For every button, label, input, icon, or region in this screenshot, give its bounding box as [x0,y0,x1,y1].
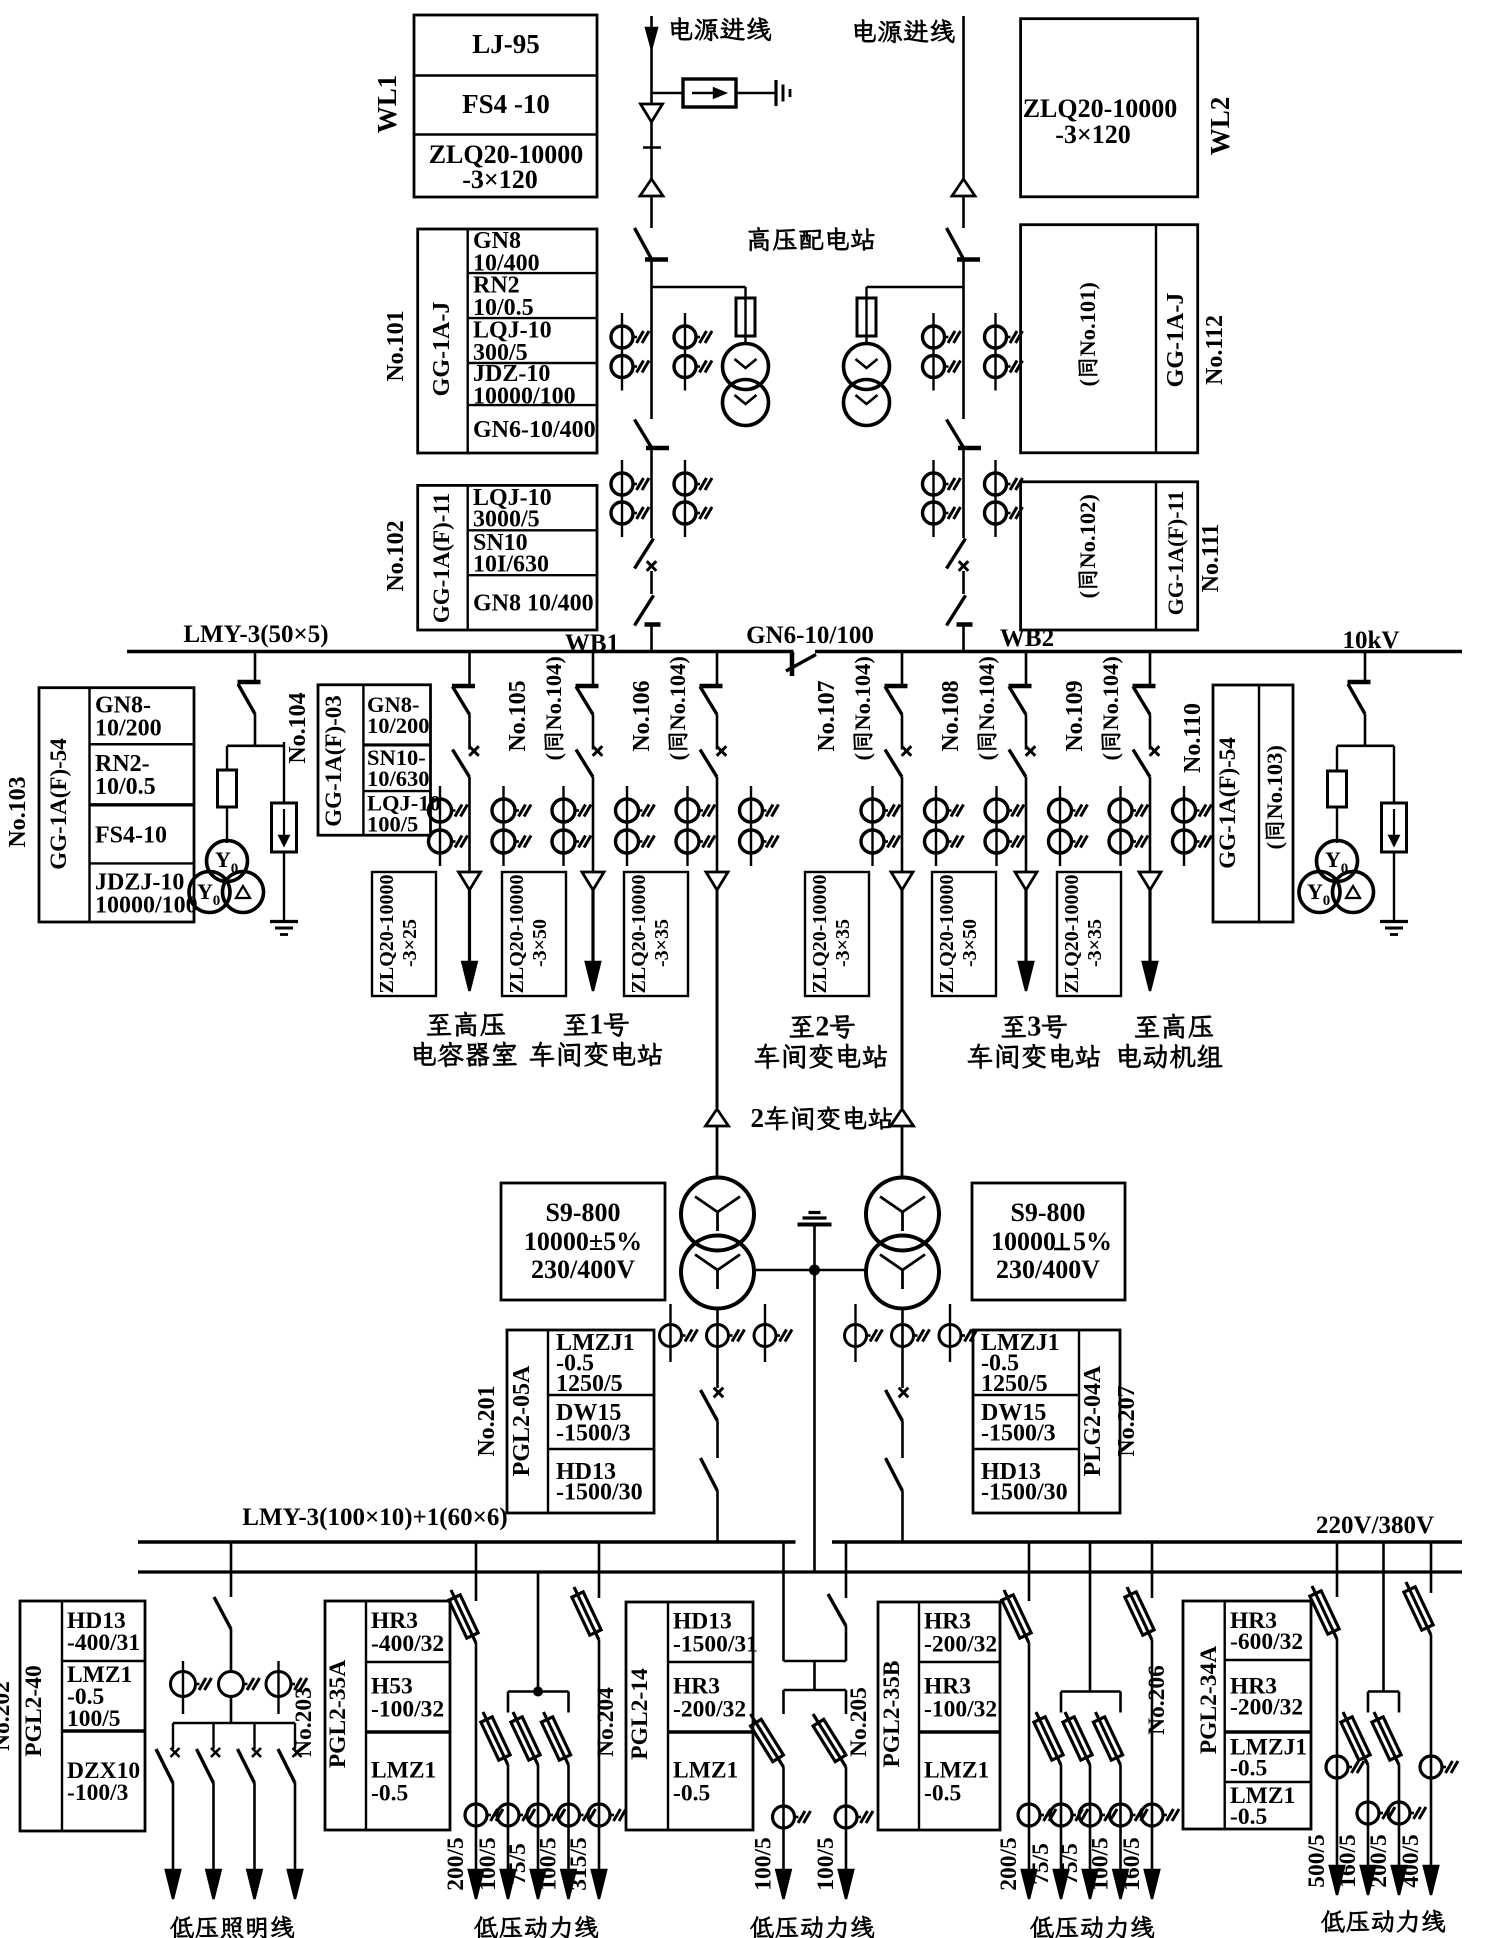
label (同No.104) rotated for No.109 [1098,656,1123,760]
svg-text:WB2: WB2 [1000,625,1054,652]
cable head down-triangle on WL1 [641,104,663,122]
svg-text:PGL2-35B: PGL2-35B [879,1660,905,1767]
LV CT + wire + arrow x=1152 [1151,1640,1154,1883]
CT pair right lower stub A [932,460,934,537]
svg-text:-3×25: -3×25 [399,919,421,967]
svg-text:230/400V: 230/400V [531,1255,635,1284]
No.206 A CT wire arrow [1336,1639,1339,1879]
wire to LV bus x=717.5 [716,1491,719,1542]
svg-text:-0.5: -0.5 [924,1780,961,1806]
incoming line 1 source arrow [646,28,657,48]
spec box No.110 [1213,685,1293,922]
label 电源进线 left [671,17,692,40]
svg-text:75/5: 75/5 [1028,1843,1054,1885]
svg-text:No.104): No.104) [1098,656,1123,730]
cable box ZLQ20 No.106 [624,872,688,996]
svg-text:ZLQ20-10000: ZLQ20-10000 [506,875,528,994]
svg-text:PGL2-34A: PGL2-34A [1196,1646,1222,1754]
svg-text:No.206: No.206 [1144,1665,1170,1735]
svg-text:No.204: No.204 [593,1687,619,1757]
svg-text:-400/32: -400/32 [371,1631,444,1657]
branch wire to PT fuse right [867,286,964,289]
output No.204 x=846 [813,1714,846,1767]
svg-text:0: 0 [231,861,239,877]
panel No.202 distribution bar [173,1722,295,1725]
wire right branch to arrester No.110 [1393,746,1395,803]
LV fuse switch at x=476 [451,1590,476,1643]
WL1 wire below triangle [650,122,653,182]
wire to breaker right [962,448,965,538]
feeder No.109 CT pair right [1183,786,1185,866]
LV CT trio at transformer x=902.5 [854,1304,856,1362]
svg-text:-100/32: -100/32 [924,1696,997,1722]
PT JDZJ-10 No.103 (3 circles Y0 Y0 D) [207,841,248,882]
svg-text:Y: Y [1325,847,1341,872]
svg-text:(: ( [1262,842,1287,850]
label 低压动力线 No.204 [750,1916,773,1938]
svg-text:-3×35: -3×35 [651,919,673,967]
svg-text:1250/5: 1250/5 [556,1371,623,1397]
svg-text:(: ( [1075,379,1100,387]
distribution bar fed from neutral x=1090 [1061,1690,1121,1693]
panel No.202 knife switch HD13 [214,1597,231,1629]
svg-text:10kV: 10kV [1343,627,1400,654]
svg-text:3000/5: 3000/5 [473,507,540,533]
CT pair 3000/5 left stub A [621,460,623,537]
bus tie bottom bar [784,1660,847,1663]
spec box No.202 PGL2-40 [20,1601,145,1831]
distribution bar fed from neutral x=1383.5 [1368,1690,1399,1693]
feeder No.107 wire from bus [901,652,904,687]
svg-text:No.104: No.104 [285,692,311,763]
svg-text:-0.5: -0.5 [1230,1755,1267,1781]
CT pair right lower stub B [994,460,996,537]
svg-text:-1500/3: -1500/3 [981,1420,1056,1446]
disconnector GN8 right (blade+bar) [947,596,966,626]
feeder A No.205 wire from bus [1028,1542,1031,1601]
branch wire to PT fuse left [652,286,746,289]
cable box ZLQ20 No.107 [805,872,869,996]
spec box No.203 PGL2-35A [325,1601,450,1830]
svg-text:WL1: WL1 [372,75,402,134]
destination label 至高压/电容器室 [427,1014,451,1035]
svg-text:ZLQ20-10000: ZLQ20-10000 [1061,875,1083,994]
feeder No.105 CT pair left [562,786,564,866]
lighting circuit wire+arrow x=254.5 [253,1783,256,1883]
PT No.110 (3 circles Y0 Y0 D) [1317,841,1358,882]
feeder No.109 cable wire+arrow [1148,890,1151,975]
wire transformer LV down x=902.5 [901,1309,904,1389]
trio output No.203 x=538 [513,1712,538,1765]
svg-text:No.203: No.203 [291,1687,317,1757]
feeder No.108 CT pair left [995,786,997,866]
svg-text:200/5: 200/5 [443,1837,469,1891]
svg-text:200/5: 200/5 [1366,1834,1392,1888]
wire No.103 split [254,714,257,746]
spec box WL1 [414,15,597,197]
wire WL2 QS2 to branch [962,259,965,419]
wire bus to No.103 branch [254,652,257,682]
svg-text:GG-1A(F)-11: GG-1A(F)-11 [1163,491,1188,616]
svg-text:(: ( [974,753,999,761]
destination label 至2号/车间变电站 [790,1016,814,1037]
trio output No.205 x=1120.5 [1096,1712,1121,1765]
svg-text:160/5: 160/5 [1335,1834,1361,1888]
CT pair right stub A [932,313,934,391]
svg-text:No.201: No.201 [474,1385,500,1456]
feeder No.107 CT pair left [871,786,873,866]
svg-text:Y: Y [197,879,213,904]
spec box WL2 [1021,19,1198,197]
wire to LV bus x=902.5 [901,1491,904,1542]
disconnector QS2 on WL2 (blade+bar) [947,228,964,259]
feeder No.108 circuit breaker (x+blade) [1026,746,1036,756]
LV knife switch HD13 x=902.5 [886,1458,903,1491]
svg-text:-3×120: -3×120 [1055,120,1130,149]
cable head up-triangle on WL1 [640,179,663,196]
bus tie left leg wire [782,1542,785,1661]
cable box ZLQ20 No.109 [1057,872,1121,996]
svg-text:WL2: WL2 [1205,97,1235,156]
feeder No.108 wire from bus [1025,652,1028,687]
feeder No.105 wire from bus [592,652,595,687]
svg-text:No.202: No.202 [0,1681,15,1751]
svg-text:No.111: No.111 [1198,524,1224,593]
label (同No.103) rotated [1262,745,1287,849]
spec box No.104 GG-1A(F)-03 [318,685,431,835]
LV breaker DW15 (x+blade) x=902.5 [899,1388,909,1398]
svg-text:500/5: 500/5 [1304,1834,1330,1888]
bus tie right leg lower wire [845,1626,848,1661]
svg-text:-0.5: -0.5 [1230,1804,1267,1830]
svg-text:S9-800: S9-800 [1010,1198,1085,1227]
feeder No.108 cable wire+arrow [1024,890,1027,975]
wire bus to No.110 branch [1364,652,1367,682]
svg-text:ZLQ20-10000: ZLQ20-10000 [1023,94,1178,123]
svg-text:PLG2-04A: PLG2-04A [1080,1365,1106,1476]
cable head triangle No.105 [582,872,604,890]
feeder No.109 disconnector (bar+blade) [1133,684,1156,689]
svg-text:No.108: No.108 [938,680,964,751]
svg-text:-1500/30: -1500/30 [981,1479,1068,1505]
svg-text:No.109: No.109 [1062,680,1088,751]
label (同No.104) rotated for No.107 [850,656,875,760]
svg-text:GN6-10/400: GN6-10/400 [473,417,596,443]
pair output No.206 x=1399 [1374,1712,1399,1765]
pair output No.206 x=1368 [1343,1712,1368,1765]
lighting circuit breaker DZX10 x=295 [294,1723,296,1749]
svg-text:PGL2-14: PGL2-14 [627,1668,653,1760]
feeder No.106 disconnector (bar+blade) [700,684,723,689]
spec box No.102 GG-1A(F)-11 [418,485,597,630]
feeder No.105 circuit breaker (x+blade) [593,746,603,756]
svg-text:10I/630: 10I/630 [473,552,549,578]
incoming line 2 (WL2) wire [962,16,965,228]
voltage transformer right (two circles) [844,344,890,390]
distribution bar fed from neutral x=538 [508,1690,569,1693]
disconnector No.103 (bar+blade) [238,680,261,685]
svg-text:No.104): No.104) [541,656,566,730]
transformer T2 (two circles) [866,1178,939,1251]
voltage transformer JDZ-10 left (two circles) [723,344,769,390]
svg-text:LJ-95: LJ-95 [472,29,540,59]
feeder No.106 wire to cable [716,777,719,872]
cable up-triangle T1 [706,1109,729,1126]
spec box No.112 [1021,225,1198,453]
LV breaker DW15 (x+blade) x=717.5 [714,1388,724,1398]
svg-text:-3×50: -3×50 [529,919,551,967]
cable head triangle No.109 [1139,872,1161,890]
incoming line 1 (WL1) wire [650,16,653,104]
svg-text:S9-800: S9-800 [545,1198,620,1227]
feeder No.107 disconnector (bar+blade) [885,684,908,689]
feeder N No.205 wire [1089,1542,1092,1692]
lighting circuit breaker DZX10 x=213.5 [212,1723,214,1749]
svg-text:-0.5: -0.5 [371,1780,408,1806]
bus tie knife switch (blade) [828,1594,846,1626]
svg-text:-200/32: -200/32 [1230,1694,1303,1720]
svg-text:10000/100: 10000/100 [95,892,198,918]
label 低压动力线 No.206 [1321,1910,1344,1932]
label (同No.104) rotated for No.108 [974,656,999,760]
label 低压动力线 No.203 [474,1916,497,1938]
junction dot on neutral [809,1265,820,1276]
svg-text:100/5: 100/5 [813,1837,839,1891]
svg-text:0: 0 [1323,893,1331,909]
feeder No.104 wire to cable [468,777,471,872]
svg-text:No.207: No.207 [1114,1385,1140,1456]
svg-text:-200/32: -200/32 [673,1696,746,1722]
feeder No.106 CT pair left [686,786,688,866]
svg-text:GG-1A-J: GG-1A-J [1163,293,1189,388]
LV fuse switch at x=1029 [1004,1590,1029,1643]
feeder No.108 disconnector (bar+blade) [1009,684,1032,689]
feeder No.109 circuit breaker (x+blade) [1150,746,1160,756]
feeder No.108 wire to cable [1025,777,1028,872]
bus tie right leg stub from bus [845,1542,848,1598]
svg-text:No.104): No.104) [665,656,690,730]
bus WB1 10kV left segment [127,650,794,654]
ground No.103 [270,920,298,923]
svg-text:-0.5: -0.5 [673,1780,710,1806]
cable box ZLQ20 No.105 [502,872,566,996]
svg-text:160/5: 160/5 [1119,1837,1145,1891]
wire right branch to arrester [283,742,285,803]
feeder No.106 wire from bus [716,652,719,687]
LV CT + wire + arrow x=599 [598,1640,601,1883]
svg-text:No.105: No.105 [505,680,531,751]
svg-text:No.101: No.101 [383,310,409,381]
svg-text:ZLQ20-10000: ZLQ20-10000 [376,875,398,994]
svg-text:No.205: No.205 [846,1687,872,1757]
label (同No.104) rotated for No.106 [665,656,690,760]
wire to surge arrester F1 [652,92,684,94]
LV CT trio at transformer x=717.5 [669,1304,671,1362]
trio output No.205 x=1090 [1065,1712,1090,1765]
CT pair LQJ-10 left stub B [684,313,686,391]
neutral wire down [813,1225,816,1574]
CT pair LQJ-10 left stub A [621,313,623,391]
svg-text:Y: Y [1307,879,1323,904]
neutral ground bars between transformers [809,1211,821,1214]
svg-text:FS4 -10: FS4 -10 [462,89,550,119]
LV fuse switch No.206 A [1312,1586,1337,1639]
svg-text:No.104): No.104) [974,656,999,730]
LV knife switch HD13 x=717.5 [701,1458,718,1491]
svg-text:0: 0 [1341,861,1349,877]
trio output No.205 x=1061 [1036,1712,1061,1765]
panel No.202 feed wire from bus [230,1542,233,1597]
svg-text:-1500/3: -1500/3 [556,1420,631,1446]
feeder No.107 wire to cable [901,777,904,872]
feeder B No.205 wire from bus [1151,1542,1154,1598]
cable head triangle No.104 [459,872,481,890]
spec box No.206 PGL2-34A [1183,1601,1311,1829]
svg-text:LMY-3(50×5): LMY-3(50×5) [183,621,328,648]
feeder No.104 circuit breaker (x+blade) [469,746,479,756]
No.204 distribution bar under bus tie [813,1661,816,1690]
spec box No.201 PGL2-05A [507,1330,654,1513]
feeder No.104 wire from bus [468,652,471,687]
wire arrester to ground [736,92,776,94]
destination label 至高压/电动机组 [1135,1016,1159,1037]
feeder B No.206 wire from bus [1430,1542,1433,1593]
fuse No.110 [1328,771,1347,807]
svg-text:LMY-3(100×10)+1(60×6): LMY-3(100×10)+1(60×6) [242,1504,507,1531]
feeder No.106 CT pair right [750,786,752,866]
svg-text:100/5: 100/5 [751,1837,777,1891]
svg-text:-3×35: -3×35 [832,919,854,967]
feeder No.105 wire to cable [592,777,595,872]
svg-text:315/5: 315/5 [566,1837,592,1891]
svg-text:3: 3 [1027,1011,1041,1042]
svg-text:230/400V: 230/400V [996,1255,1100,1284]
LV fuse switch at x=1152 [1127,1587,1152,1640]
svg-text:-400/31: -400/31 [67,1630,140,1656]
svg-text:ZLQ20-10000: ZLQ20-10000 [628,875,650,994]
svg-text:1: 1 [589,1009,603,1040]
feeder No.105 disconnector (bar+blade) [576,684,599,689]
output No.204 x=783.5 [751,1714,784,1767]
surge arrester No.103 [272,803,297,852]
lighting circuit wire+arrow x=295 [294,1783,297,1883]
svg-text:(: ( [541,753,566,761]
wire to transformer T2 [901,1126,904,1178]
feeder B No.203 wire from bus [598,1542,601,1598]
transformer T1 (two circles) [681,1178,754,1251]
feeder A No.203 wire from bus [475,1542,478,1601]
wire No.110 split [1364,714,1367,746]
svg-text:GN6-10/100: GN6-10/100 [746,622,874,649]
LV CT + wire + arrow x=476 [475,1643,478,1883]
svg-text:75/5: 75/5 [505,1843,531,1885]
feeder No.107 CT pair right [935,786,937,866]
surge arrester F1 (box with arrow) [683,79,736,107]
feeder No.104 disconnector (bar+blade) [452,684,475,689]
LV CT + wire + arrow x=1029 [1028,1643,1031,1883]
bus sectionalizer GN6-10/100 (bar+blade) [790,652,795,676]
svg-text:400/5: 400/5 [1398,1834,1424,1888]
feeder N No.206 wire [1382,1542,1385,1692]
svg-text:100/5: 100/5 [475,1837,501,1891]
feeder No.107 circuit breaker (x+blade) [902,746,912,756]
wire to transformer T1 [716,1126,719,1178]
svg-text:GG-1A(F)-54: GG-1A(F)-54 [1215,737,1240,869]
svg-text:No.101): No.101) [1075,282,1100,356]
svg-text:ZLQ20-10000: ZLQ20-10000 [936,875,958,994]
svg-text:10000: 10000 [991,1227,1056,1256]
svg-text:-600/32: -600/32 [1230,1629,1303,1655]
svg-text:0: 0 [213,893,221,909]
feeder No.109 wire to cable [1149,777,1152,872]
cable up-triangle T2 [891,1109,914,1126]
feeder No.109 CT pair left [1119,786,1121,866]
lighting circuit wire+arrow x=213.5 [212,1783,215,1883]
svg-text:-3×120: -3×120 [462,165,537,194]
svg-text:PGL2-35A: PGL2-35A [325,1660,351,1768]
feeder No.106 cable wire down to substation [716,890,719,1108]
disconnector GN8 left (blade+bar) [635,596,654,626]
disconnector QS1 on WL1 (blade+bar) [635,228,652,259]
circuit breaker right (blade+x) [947,539,966,569]
feeder No.106 circuit breaker (x+blade) [717,746,727,756]
LV phase bus right segment [832,1540,1462,1544]
svg-text:-100/32: -100/32 [371,1696,444,1722]
svg-text:220V/380V: 220V/380V [1316,1512,1434,1539]
feeder No.107 cable wire down to substation [901,890,904,1108]
svg-text:ZLQ20-10000: ZLQ20-10000 [809,875,831,994]
feeder No.105 cable wire+arrow [591,890,594,975]
svg-text:GN8 10/400: GN8 10/400 [473,591,594,617]
label (同No.104) rotated for No.105 [541,656,566,760]
svg-text:(: ( [850,753,875,761]
wire left branch to fuse [226,746,228,770]
cable head triangle No.107 [891,872,913,890]
svg-text:10/630: 10/630 [367,766,430,791]
feeder No.104 cable wire+arrow [468,890,471,975]
svg-text:GG-1A(F)-03: GG-1A(F)-03 [321,695,346,827]
svg-text:PGL2-40: PGL2-40 [21,1665,47,1756]
label (同No.102) rotated [1075,494,1100,598]
ground (rotated) for arrester [774,80,777,106]
svg-text:75/5: 75/5 [1057,1843,1083,1885]
svg-text:GG-1A(F)-11: GG-1A(F)-11 [429,493,454,623]
feeder No.109 wire from bus [1149,652,1152,687]
svg-text:100/5: 100/5 [367,811,418,836]
svg-text:GG-1A-J: GG-1A-J [429,302,455,397]
spec box No.207 PLG2-04A [973,1330,1120,1513]
spec box No.205 PGL2-35B [878,1602,1000,1830]
bus WB2 10kV right segment [815,650,1462,654]
cable head triangle No.106 [706,872,728,890]
svg-text:100/5: 100/5 [536,1837,562,1891]
svg-text:No.112: No.112 [1202,315,1228,385]
svg-text:No.110: No.110 [1180,703,1206,773]
svg-text:-1500/30: -1500/30 [556,1479,643,1505]
neutral tie wire between transformer secondaries [753,1269,867,1272]
LV phase bus left segment [138,1540,796,1544]
svg-text:5%: 5% [1073,1227,1112,1256]
lighting circuit wire+arrow x=173 [172,1783,175,1883]
svg-text:(: ( [1098,753,1123,761]
cable head triangle No.108 [1015,872,1037,890]
ground No.110 [1380,920,1408,923]
feeder No.104 CT pair right [502,786,504,866]
svg-text:10000±5%: 10000±5% [524,1227,642,1256]
panel No.202 CT trio LMZ1 [182,1661,184,1714]
svg-text:-3×35: -3×35 [1084,919,1106,967]
svg-text:-100/3: -100/3 [67,1780,128,1806]
